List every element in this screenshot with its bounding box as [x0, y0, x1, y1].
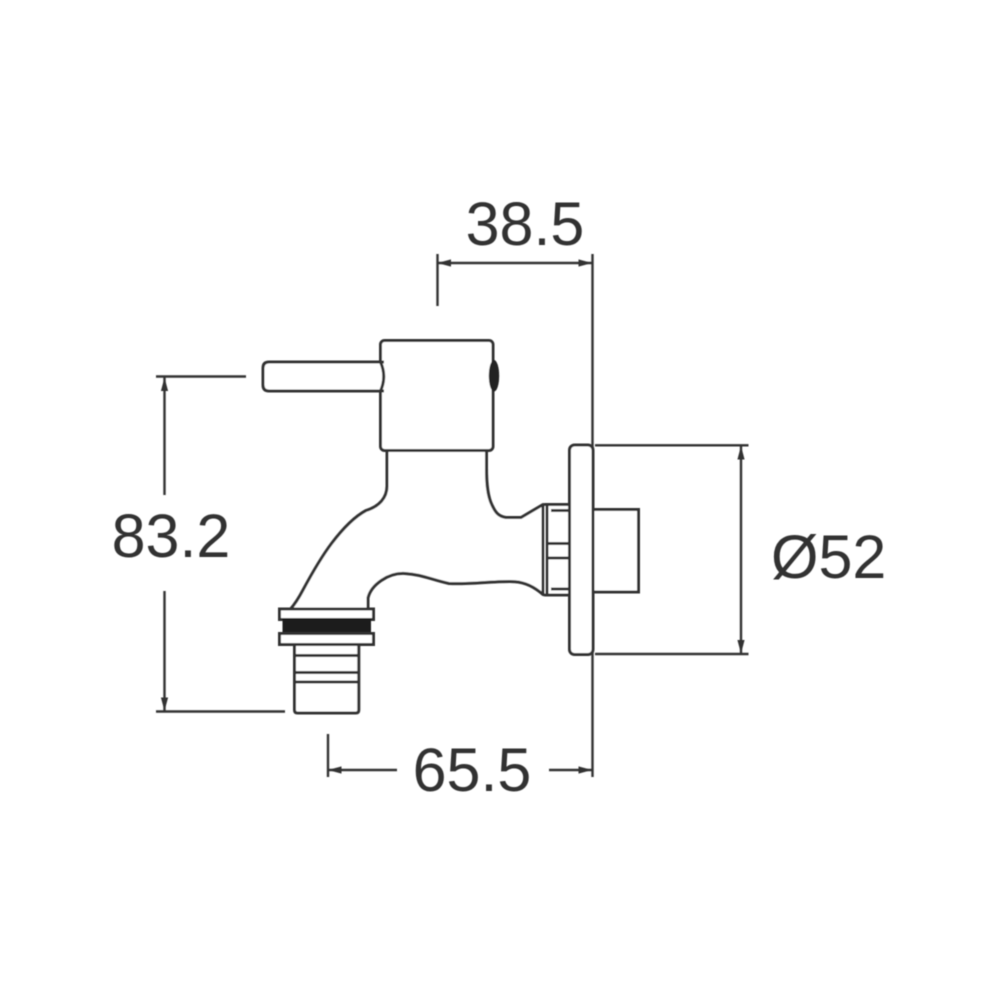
svg-text:38.5: 38.5 — [466, 190, 585, 258]
svg-text:65.5: 65.5 — [413, 736, 532, 804]
svg-text:83.2: 83.2 — [112, 502, 231, 570]
svg-text:Ø52: Ø52 — [771, 523, 886, 591]
